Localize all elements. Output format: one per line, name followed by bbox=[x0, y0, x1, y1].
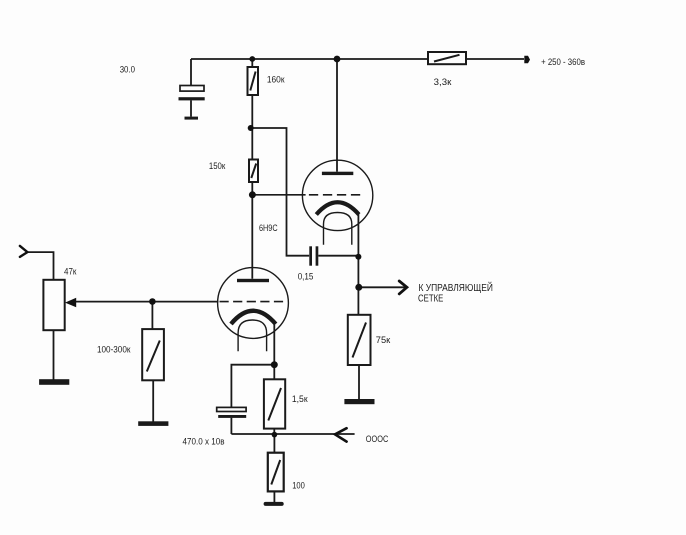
svg-text:ОООС: ОООС bbox=[366, 434, 389, 445]
svg-text:75к: 75к bbox=[376, 335, 391, 346]
svg-text:+ 250 - 360в: + 250 - 360в bbox=[541, 57, 585, 68]
svg-text:100: 100 bbox=[292, 480, 305, 491]
svg-text:100-300к: 100-300к bbox=[97, 345, 131, 356]
svg-text:СЕТКЕ: СЕТКЕ bbox=[418, 293, 444, 304]
svg-text:0,15: 0,15 bbox=[298, 272, 314, 283]
svg-text:3,3к: 3,3к bbox=[434, 77, 452, 88]
svg-text:150к: 150к bbox=[209, 161, 226, 172]
svg-text:6Н9С: 6Н9С bbox=[259, 223, 278, 234]
svg-text:1,5к: 1,5к bbox=[292, 394, 308, 405]
svg-text:47к: 47к bbox=[64, 267, 77, 278]
svg-text:30.0: 30.0 bbox=[120, 65, 135, 76]
svg-text:470.0 x 10в: 470.0 x 10в bbox=[183, 437, 225, 448]
svg-text:К УПРАВЛЯЮЩЕЙ: К УПРАВЛЯЮЩЕЙ bbox=[419, 281, 493, 294]
svg-text:160к: 160к bbox=[267, 75, 285, 86]
